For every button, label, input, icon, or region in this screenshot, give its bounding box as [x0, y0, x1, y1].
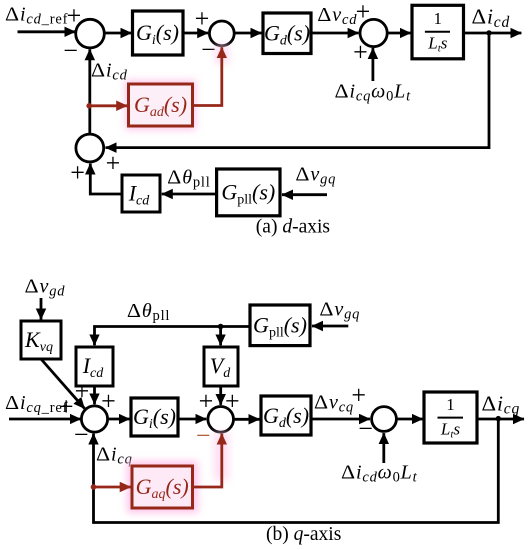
- wire delta v_gd into Kvq: [40, 298, 43, 320]
- wire T3 to 1/Lts q-axis: [397, 418, 423, 421]
- wire omega0Lt up into T3 bottom: [382, 433, 385, 463]
- label delta i_cq output: [482, 391, 521, 417]
- wire S1 to Gi: [104, 32, 131, 35]
- block Gad(s) active damping (red): [129, 84, 193, 126]
- label delta theta_pll d-axis: [167, 167, 210, 191]
- minus sign at S1 bottom input: [63, 36, 78, 65]
- wire T1 to Gi q-axis: [108, 418, 130, 421]
- svg-text:(b) q-axis: (b) q-axis: [266, 524, 341, 545]
- node junction red tap q-axis: [91, 484, 97, 490]
- wire feedback q-axis from output down left and up to T1: [94, 419, 499, 523]
- svg-text:+: +: [59, 392, 74, 421]
- wire output delta i_cq: [477, 418, 524, 421]
- svg-text:Δicdω0Lt: Δicdω0Lt: [341, 462, 418, 486]
- wire red tap to Gad: [89, 104, 127, 107]
- wire Gaq output up to T2 bottom (red): [193, 434, 222, 487]
- svg-text:+: +: [75, 377, 90, 406]
- wire theta_pll from Gpll left to Icd top: [95, 327, 251, 346]
- svg-text:Δvcd: Δvcd: [317, 4, 357, 28]
- summing junction S3: [360, 19, 387, 46]
- label delta v_cd: [317, 4, 357, 28]
- summing junction T3: [372, 407, 397, 432]
- node junction red tap on feedback wire: [86, 103, 92, 109]
- label delta i_cd output: [472, 5, 511, 31]
- node junction on output: [486, 30, 491, 35]
- node junction on theta wire above Vd: [218, 324, 224, 330]
- plus sign at S3 bottom input: [353, 38, 368, 67]
- svg-text:Gi(s): Gi(s): [136, 20, 179, 48]
- label delta i_cq feedback: [96, 444, 133, 468]
- plus sign T2 left input: [199, 386, 214, 415]
- minus sign T3 bottom input: [358, 414, 373, 443]
- block 1/(Lt s) d-axis: [412, 5, 464, 59]
- svg-text:Δicd_ref: Δicd_ref: [5, 4, 68, 28]
- minus sign at S2 bottom input: [201, 35, 216, 64]
- block 1/(Lt s) q-axis: [424, 392, 477, 443]
- plus sign T3 left input: [351, 381, 366, 410]
- svg-text:+: +: [70, 158, 85, 187]
- label delta theta_pll q-axis: [127, 300, 170, 324]
- wire T2 to Gd q-axis: [234, 418, 260, 421]
- label delta v_gq d-axis: [295, 164, 336, 188]
- summing junction S1: [76, 19, 105, 48]
- svg-text:−: −: [63, 36, 78, 65]
- wire Kvq diagonal to summing junction T1: [41, 359, 85, 409]
- plus sign at S4 right input: [106, 149, 121, 178]
- svg-text:Gd(s): Gd(s): [264, 21, 310, 49]
- pink glow behind Gaq: [127, 432, 229, 513]
- label delta i_cd omega0 Lt: [341, 462, 418, 486]
- pink glow behind Gad: [125, 44, 229, 130]
- label delta i_cd_ref input: [5, 4, 68, 28]
- svg-text:+: +: [195, 4, 210, 33]
- wire Icd bottom to T1 top: [93, 386, 96, 404]
- wire S2 to Gd: [235, 32, 262, 35]
- minus sign T1 bottom input: [74, 420, 89, 449]
- svg-text:+: +: [106, 149, 121, 178]
- summing junction S4: [76, 134, 104, 162]
- svg-text:Δvgd: Δvgd: [25, 275, 66, 299]
- label delta i_cq_ref input: [5, 392, 68, 416]
- minus sign T2 bottom input (red): [196, 421, 211, 450]
- node junction on output q-axis: [496, 416, 501, 421]
- wire Gi to T2: [178, 418, 206, 421]
- svg-text:Lts: Lts: [427, 34, 448, 55]
- plus sign at S4 bottom input: [70, 158, 85, 187]
- svg-text:Δvcq: Δvcq: [314, 392, 354, 416]
- wire Icd output left and up to S4: [90, 164, 122, 195]
- label delta v_gd: [25, 275, 66, 299]
- summing junction S2: [209, 21, 234, 46]
- plus sign T1 diagonal input: [75, 377, 90, 406]
- svg-text:Δicqω0Lt: Δicqω0Lt: [335, 81, 412, 105]
- svg-text:Lts: Lts: [440, 420, 461, 441]
- block Gd(s) q-axis: [261, 396, 311, 435]
- svg-text:1: 1: [434, 9, 443, 28]
- plus sign T1 top input: [101, 387, 116, 416]
- svg-text:1: 1: [446, 395, 455, 414]
- wire input to summing junction S1: [18, 30, 76, 33]
- block Gaq(s) active damping (red): [132, 466, 193, 508]
- plus sign T2 top input: [225, 386, 240, 415]
- summing junction T2: [208, 407, 234, 433]
- svg-text:Gd(s): Gd(s): [263, 403, 309, 431]
- caption (a) d-axis: [256, 216, 330, 237]
- wire Gad output up to S2 bottom (red): [193, 47, 222, 105]
- wire Gd to summing junction S3, node delta v_cd: [311, 32, 359, 35]
- wire output delta i_cd: [464, 32, 522, 35]
- plus sign at S3 left input: [356, 0, 371, 26]
- svg-text:Δθpll: Δθpll: [167, 167, 210, 191]
- wire Gi to summing junction S2: [183, 32, 208, 35]
- wire Vd bottom to T2 top: [219, 386, 222, 405]
- wire feedback from output down and left to S4: [106, 33, 490, 148]
- svg-text:+: +: [351, 381, 366, 410]
- svg-text:Δicd: Δicd: [91, 60, 128, 84]
- wire S3 to 1/Lts block: [387, 32, 411, 35]
- wire omega0Lt up into S3 bottom (top diagram): [371, 48, 374, 81]
- plus sign T1 left input: [59, 392, 74, 421]
- block Gd(s) d-axis: [263, 13, 311, 54]
- wire Gd to T3, node delta v_cq: [311, 418, 370, 421]
- block Gpll(s) q-axis: [250, 305, 310, 346]
- wire Gpll to Icd: [162, 193, 217, 196]
- caption (b) q-axis: [266, 524, 341, 545]
- label delta v_gq q-axis: [319, 298, 360, 322]
- block Vd: [204, 347, 238, 386]
- block Kvq: [21, 321, 61, 359]
- wire S4 up to S1 bottom: [88, 49, 91, 134]
- svg-text:Δvgq: Δvgq: [319, 298, 360, 322]
- wire drop to Vd top: [219, 327, 222, 346]
- wire delta v_gq into Gpll q-axis: [312, 325, 348, 328]
- block Icd q-axis: [76, 347, 113, 386]
- block Gi(s) d-axis: [133, 11, 184, 55]
- block Gi(s) q-axis: [131, 398, 178, 436]
- svg-text:Δvgq: Δvgq: [295, 164, 336, 188]
- block Gpll(s) d-axis: [217, 169, 280, 216]
- block Icd d-axis: [122, 175, 160, 212]
- svg-text:Gi(s): Gi(s): [133, 404, 176, 432]
- wire red tap to Gaq: [94, 486, 131, 489]
- svg-text:Δicq: Δicq: [482, 391, 521, 417]
- label delta i_cq omega0 Lt (top diagram): [335, 81, 412, 105]
- svg-text:Δicd: Δicd: [472, 5, 511, 31]
- summing junction T1: [81, 406, 107, 432]
- wire delta v_gq into Gpll: [282, 193, 327, 196]
- label delta v_cq: [314, 392, 354, 416]
- plus sign at S1 left input: [67, 1, 82, 30]
- svg-text:(a) d-axis: (a) d-axis: [256, 216, 330, 237]
- plus sign at S2 left input: [195, 4, 210, 33]
- wire input to T1: [9, 418, 81, 421]
- svg-text:Δθpll: Δθpll: [127, 300, 170, 324]
- label delta i_cd feedback: [91, 60, 128, 84]
